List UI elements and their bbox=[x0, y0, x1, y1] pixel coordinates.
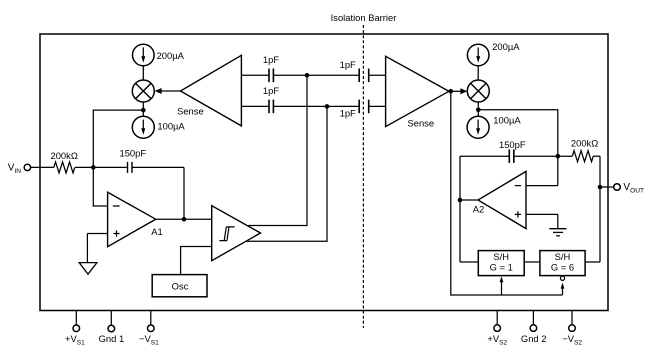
svg-text:S/H: S/H bbox=[555, 251, 571, 262]
svg-text:−VS1: −VS1 bbox=[139, 333, 159, 346]
svg-text:+VS1: +VS1 bbox=[65, 333, 85, 346]
svg-text:G = 6: G = 6 bbox=[551, 261, 574, 272]
svg-text:Osc: Osc bbox=[172, 281, 189, 292]
svg-text:200kΩ: 200kΩ bbox=[51, 150, 78, 161]
svg-text:200µA: 200µA bbox=[157, 50, 185, 61]
svg-text:G = 1: G = 1 bbox=[490, 261, 513, 272]
svg-text:1pF: 1pF bbox=[340, 107, 356, 118]
svg-text:Gnd 1: Gnd 1 bbox=[99, 333, 125, 344]
svg-text:S/H: S/H bbox=[493, 251, 509, 262]
svg-text:+VS2: +VS2 bbox=[487, 333, 507, 346]
svg-text:200µA: 200µA bbox=[492, 41, 520, 52]
svg-text:1pF: 1pF bbox=[263, 85, 279, 96]
svg-text:100µA: 100µA bbox=[493, 114, 521, 125]
svg-text:Sense: Sense bbox=[177, 105, 204, 116]
svg-text:100µA: 100µA bbox=[157, 120, 185, 131]
svg-text:−VS2: −VS2 bbox=[562, 333, 582, 346]
svg-text:VOUT: VOUT bbox=[623, 182, 644, 194]
svg-text:A1: A1 bbox=[151, 226, 162, 237]
svg-text:1pF: 1pF bbox=[263, 54, 279, 65]
svg-text:150pF: 150pF bbox=[499, 139, 526, 150]
svg-text:Isolation Barrier: Isolation Barrier bbox=[331, 12, 397, 23]
svg-text:200kΩ: 200kΩ bbox=[571, 138, 598, 149]
svg-text:VIN: VIN bbox=[8, 163, 22, 175]
svg-text:150pF: 150pF bbox=[120, 148, 147, 159]
svg-text:A2: A2 bbox=[473, 203, 484, 214]
svg-text:Gnd 2: Gnd 2 bbox=[521, 333, 547, 344]
svg-text:1pF: 1pF bbox=[340, 59, 356, 70]
svg-text:Sense: Sense bbox=[408, 117, 435, 128]
